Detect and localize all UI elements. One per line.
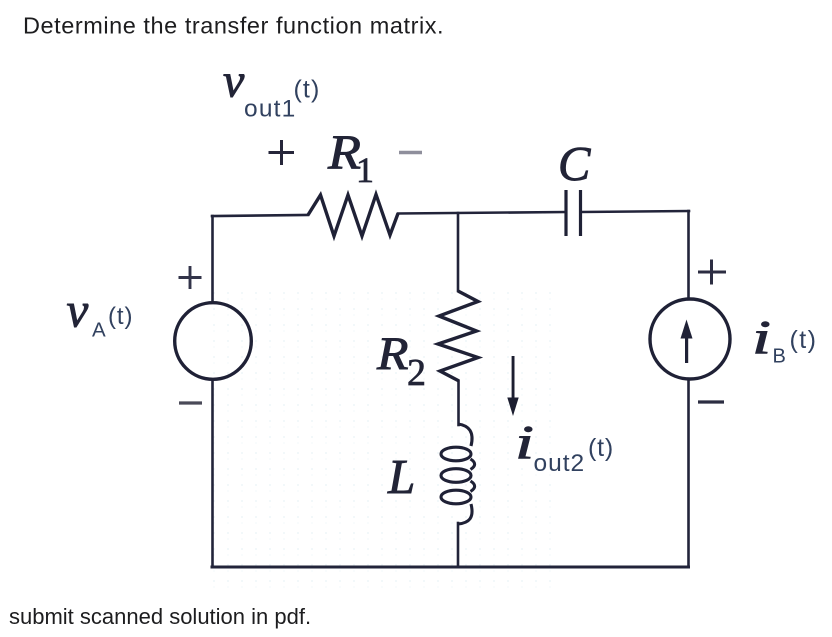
plus sign above iB [698, 260, 726, 285]
svg-text:1: 1 [356, 150, 374, 190]
label vout1 [223, 55, 320, 123]
svg-text:i: i [752, 312, 771, 365]
svg-text:L: L [387, 449, 415, 504]
wire left vertical bottom [211, 381, 214, 567]
wire middle branch between R2 and L [457, 381, 460, 425]
wire bottom horizontal [212, 566, 689, 569]
svg-text:(t): (t) [588, 434, 614, 462]
wire left vertical top [211, 216, 214, 301]
label R1 [327, 125, 374, 191]
label R2 [376, 328, 426, 394]
capacitor C [566, 190, 581, 236]
resistor R2 [438, 291, 478, 381]
svg-text:R: R [376, 328, 409, 380]
wire middle branch bottom [457, 523, 460, 567]
svg-text:submit scanned solution in pdf: submit scanned solution in pdf. [9, 604, 311, 629]
svg-text:(t): (t) [294, 76, 321, 104]
plus sign near R1 [269, 140, 295, 165]
wire top-middle horizontal [398, 212, 566, 214]
arrow iout2 [507, 356, 518, 416]
svg-text:(t): (t) [790, 326, 818, 354]
label iout2 [515, 417, 614, 478]
label iB [752, 312, 817, 368]
wire top-right horizontal [581, 211, 689, 212]
svg-text:out2: out2 [534, 450, 586, 477]
svg-text:Determine the transfer functio: Determine the transfer function matrix. [23, 13, 444, 39]
minus sign near R1 [399, 151, 422, 154]
inductor L [441, 424, 475, 524]
label vA [67, 283, 134, 342]
minus sign below vA [179, 401, 202, 404]
minus sign below iB [698, 400, 724, 403]
wire right vertical top [687, 211, 690, 298]
plus sign above vA [179, 266, 202, 289]
svg-text:A: A [92, 319, 106, 342]
voltage source vA circle [175, 303, 252, 380]
wire top-left horizontal [212, 215, 308, 216]
svg-text:2: 2 [407, 352, 426, 394]
wire middle branch top [457, 213, 460, 291]
svg-text:C: C [558, 138, 591, 191]
svg-text:(t): (t) [108, 303, 133, 330]
svg-text:out1: out1 [244, 96, 296, 123]
svg-text:B: B [773, 346, 786, 368]
resistor R1 [308, 195, 398, 237]
svg-text:i: i [515, 417, 534, 470]
current source arrow [681, 320, 693, 364]
wire right vertical bottom [687, 380, 690, 567]
svg-text:v: v [67, 283, 89, 338]
svg-text:v: v [223, 55, 245, 108]
current source iB circle [650, 299, 730, 379]
